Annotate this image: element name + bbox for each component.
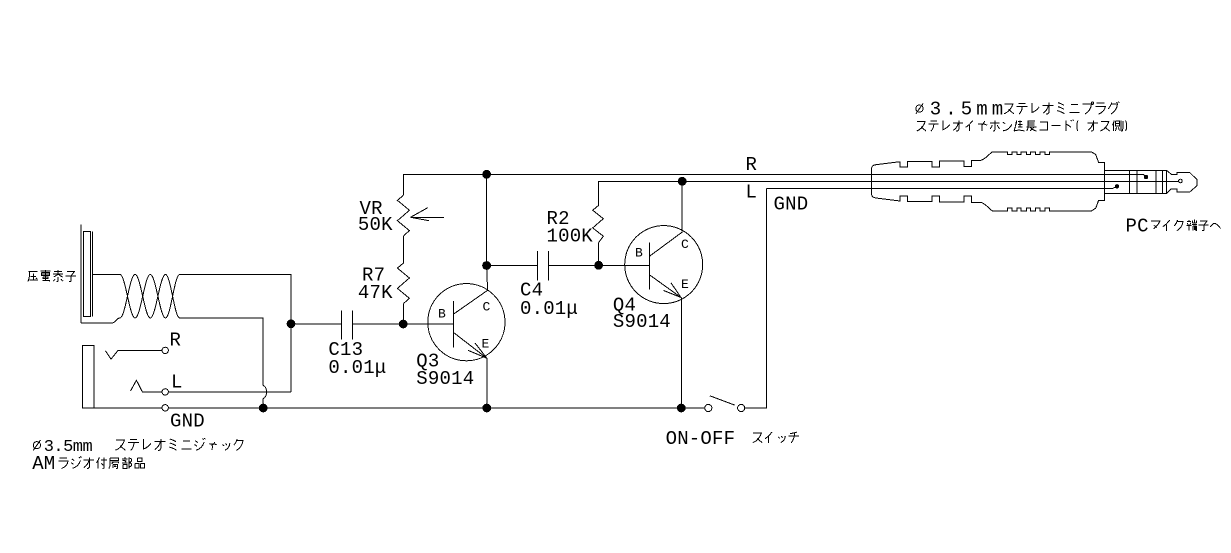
- svg-text:C: C: [681, 237, 689, 252]
- kana label switch (suicchi): [753, 433, 763, 443]
- svg-text:0.01μ: 0.01μ: [520, 298, 578, 320]
- wire Q3 base: [403, 323, 453, 325]
- svg-text:50K: 50K: [358, 214, 393, 236]
- capacitor C4 left wire: [487, 265, 538, 267]
- L wire termination circle at tip: [1179, 179, 1183, 183]
- kana label to PC mic terminal: [1151, 221, 1160, 229]
- node D junction dot collector/C4: [482, 261, 491, 270]
- resistor R2 100K zigzag: [593, 205, 604, 242]
- kanji label piezo element (atsu-den-soshi): [28, 271, 38, 281]
- kana label stereo earphone extension cord male side: [917, 122, 926, 131]
- diameter symbol at plug label: [916, 103, 923, 113]
- capacitor C13 left wire: [295, 323, 341, 325]
- transistor Q3 collector lead: [453, 290, 487, 314]
- svg-text:L: L: [746, 182, 758, 204]
- transistor Q3 base bar: [452, 301, 454, 347]
- GND wire termination solder dot: [1115, 184, 1119, 188]
- wire twisted pair conductor A: [120, 274, 180, 318]
- kana label AM radio accessory part: [58, 458, 68, 469]
- wire ground rail: [168, 407, 704, 409]
- transistor Q4 base bar: [648, 242, 650, 289]
- potentiometer VR 50K zigzag: [397, 195, 409, 236]
- svg-text:S9014: S9014: [416, 368, 474, 390]
- svg-text:R: R: [746, 154, 758, 176]
- transistor Q3 emitter lead with arrow: [453, 332, 486, 358]
- wire twisted pair conductor B: [112, 274, 180, 323]
- plug P1 cable boot and molded body outline: [872, 152, 1105, 211]
- wire VR to R7: [403, 236, 405, 263]
- wire piezo top lead: [92, 273, 120, 275]
- wire R2 top to L line: [599, 181, 683, 205]
- potentiometer VR wiper arrow: [411, 208, 445, 221]
- svg-text:B: B: [438, 307, 446, 322]
- svg-text:B: B: [635, 245, 643, 260]
- ground rail junction dot at return wire: [259, 404, 268, 413]
- wire Q4 base: [599, 264, 650, 266]
- piezo element mounting plate: [80, 225, 82, 324]
- capacitor C13 plates: [342, 311, 353, 340]
- svg-text:E: E: [482, 336, 490, 351]
- L line wire to plug tip: [682, 180, 1178, 182]
- capacitor C4 right wire: [548, 264, 598, 266]
- switch SW1 left contact circle: [705, 404, 712, 411]
- svg-text:L: L: [171, 372, 183, 394]
- jack J1 GND terminal circle: [162, 405, 168, 411]
- svg-text:C: C: [483, 300, 491, 315]
- svg-text:GND: GND: [170, 411, 205, 433]
- jack J1 body: [83, 346, 94, 408]
- transistor Q4 emitter lead with arrow: [649, 275, 681, 298]
- jack J1 L contact spring: [131, 380, 163, 392]
- wire Q4 emitter to ground rail: [680, 298, 682, 409]
- kana label stereo mini jack: [115, 440, 125, 450]
- wire Q4 collector vertical: [681, 181, 683, 231]
- wire jack body to GND terminal: [94, 407, 162, 409]
- node A junction dot: [287, 319, 296, 328]
- transistor Q4 circle: [625, 226, 703, 304]
- transistor Q3 circle: [428, 284, 505, 361]
- resistor R7 47K zigzag: [397, 263, 409, 304]
- wire L terminal to node A: [168, 328, 291, 392]
- wire signal run to node A: [180, 274, 291, 323]
- GND line wire to plug: [767, 186, 1117, 188]
- wire piezo bottom lead: [81, 322, 112, 324]
- svg-text:E: E: [681, 277, 689, 292]
- wire VR top to R rail corner: [404, 174, 487, 195]
- svg-text:AM: AM: [32, 453, 55, 475]
- svg-text:100K: 100K: [547, 226, 594, 248]
- wire R2 bottom to node E: [598, 243, 600, 266]
- svg-text:PC: PC: [1126, 216, 1149, 238]
- diameter symbol at jack label: [33, 440, 40, 450]
- svg-text:ON-OFF: ON-OFF: [666, 428, 736, 450]
- capacitor C4 plates: [538, 251, 549, 280]
- ground rail junction dot at switch: [677, 404, 686, 413]
- R wire termination hook and solder dot: [1143, 174, 1146, 177]
- switch SW1 right contact circle: [738, 404, 745, 411]
- jack J1 R terminal circle: [162, 347, 168, 353]
- wire Q3 collector vertical: [487, 174, 488, 290]
- capacitor C13 right wire: [352, 323, 403, 325]
- node B junction dot C13/R7/Q3 base: [399, 320, 408, 329]
- node F junction dot L line/Q4 collector: [678, 177, 687, 186]
- svg-text:0.01μ: 0.01μ: [328, 357, 386, 379]
- ground rail junction dot at Q3 emitter: [482, 404, 491, 413]
- piezo element disc PZ1: [83, 232, 90, 317]
- wire R7 bottom to node B: [403, 304, 405, 325]
- jack J1 R contact spring: [106, 351, 163, 360]
- plug P1 insulator ring lines: [1130, 170, 1163, 193]
- svg-text:R: R: [170, 330, 182, 352]
- wire return run to ground with crossover hop: [180, 318, 264, 408]
- kana label stereo mini plug: [1004, 104, 1014, 114]
- svg-text:3.5mm: 3.5mm: [930, 99, 1008, 121]
- svg-text:S9014: S9014: [613, 311, 671, 333]
- wire switch to GND riser: [745, 189, 767, 408]
- svg-text:47K: 47K: [358, 282, 393, 304]
- wire Q3 emitter to ground rail: [486, 358, 488, 408]
- R rail wire to plug: [487, 173, 1144, 175]
- node C junction dot rail/Q3 collector: [482, 170, 491, 179]
- wire hop over L wire: [263, 386, 266, 399]
- piezo element electrode: [91, 232, 93, 317]
- jack J1 L terminal circle: [162, 389, 168, 395]
- plug P1 metal sleeve: [1104, 170, 1166, 193]
- svg-text:GND: GND: [774, 194, 809, 216]
- switch SW1 lever: [710, 396, 735, 405]
- transistor Q4 collector lead: [649, 232, 682, 257]
- node E junction dot C4/R2/Q4 base: [594, 261, 603, 270]
- plug P1 tip: [1167, 170, 1198, 193]
